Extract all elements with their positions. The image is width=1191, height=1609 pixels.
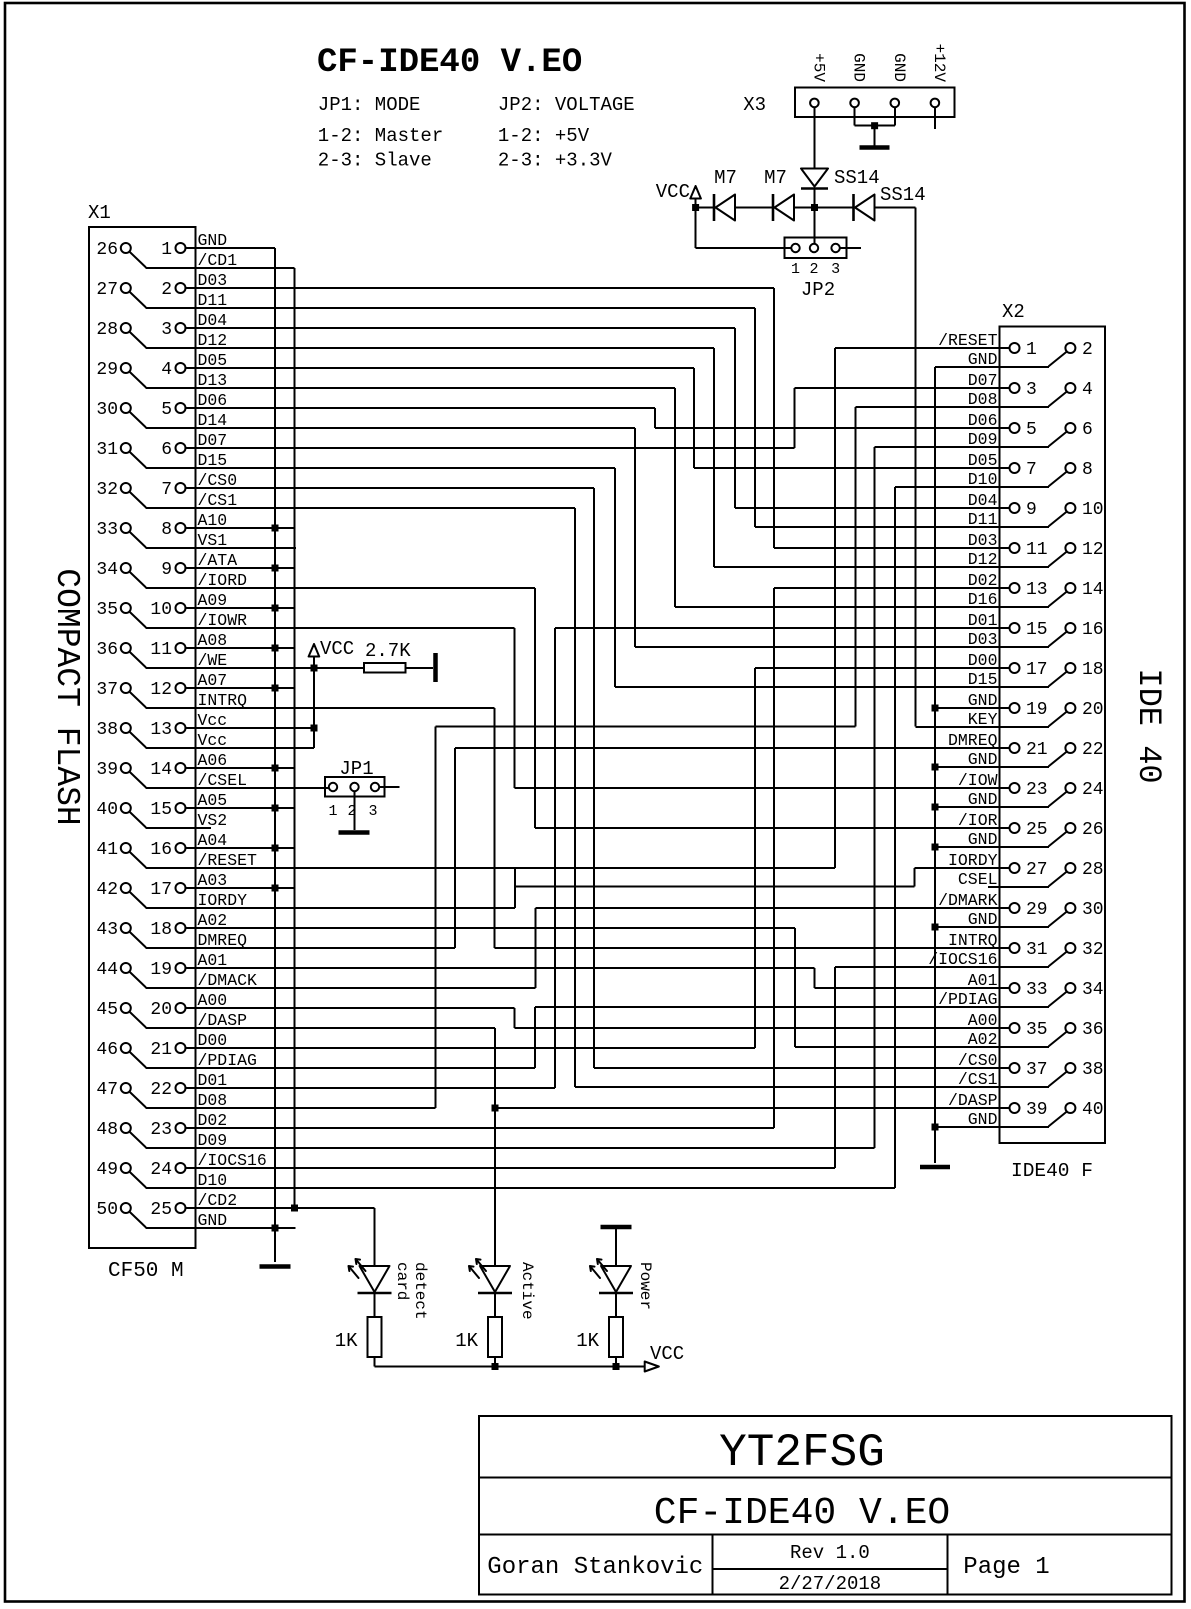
svg-text:IORDY: IORDY (198, 891, 248, 910)
svg-text:15: 15 (1026, 620, 1048, 640)
svg-text:3: 3 (1026, 380, 1037, 400)
svg-text:VCC: VCC (656, 181, 690, 203)
svg-text:18: 18 (150, 920, 172, 940)
svg-text:7: 7 (161, 480, 172, 500)
svg-text:18: 18 (1082, 660, 1104, 680)
svg-text:17: 17 (1026, 660, 1048, 680)
svg-text:3: 3 (161, 320, 172, 340)
svg-text:2-3: +3.3V: 2-3: +3.3V (498, 150, 613, 172)
svg-text:30: 30 (96, 400, 118, 420)
svg-text:25: 25 (1026, 820, 1048, 840)
svg-text:2: 2 (347, 803, 356, 820)
svg-text:31: 31 (1026, 940, 1048, 960)
svg-text:/CS1: /CS1 (958, 1070, 998, 1089)
svg-text:D05: D05 (198, 351, 228, 370)
svg-text:19: 19 (1026, 700, 1048, 720)
svg-text:29: 29 (96, 360, 118, 380)
svg-text:GND: GND (198, 231, 228, 250)
svg-text:/CSEL: /CSEL (198, 771, 248, 790)
svg-text:SS14: SS14 (880, 184, 926, 206)
svg-text:23: 23 (1026, 780, 1048, 800)
svg-text:VS1: VS1 (198, 531, 228, 550)
svg-text:KEY: KEY (968, 710, 998, 729)
svg-text:VS2: VS2 (198, 811, 228, 830)
svg-text:/RESET: /RESET (198, 851, 258, 870)
svg-text:GND: GND (968, 830, 998, 849)
svg-text:JP1: MODE: JP1: MODE (318, 94, 421, 116)
svg-text:D07: D07 (968, 371, 998, 390)
svg-text:D03: D03 (968, 630, 998, 649)
svg-text:40: 40 (96, 800, 118, 820)
svg-text:4: 4 (1082, 380, 1093, 400)
svg-text:D00: D00 (198, 1031, 228, 1050)
svg-text:GND: GND (968, 750, 998, 769)
svg-text:34: 34 (96, 560, 118, 580)
svg-text:37: 37 (1026, 1060, 1048, 1080)
svg-text:9: 9 (1026, 500, 1037, 520)
svg-text:35: 35 (96, 600, 118, 620)
svg-text:GND: GND (968, 790, 998, 809)
svg-text:1-2: Master: 1-2: Master (318, 125, 443, 147)
svg-text:5: 5 (1026, 420, 1037, 440)
svg-text:JP2: JP2 (801, 279, 835, 301)
svg-text:/WE: /WE (198, 651, 228, 670)
svg-text:/IOW: /IOW (958, 771, 998, 790)
svg-text:A02: A02 (968, 1030, 998, 1049)
svg-text:9: 9 (161, 560, 172, 580)
svg-text:1K: 1K (576, 1330, 599, 1352)
svg-text:D10: D10 (198, 1171, 228, 1190)
svg-text:7: 7 (1026, 460, 1037, 480)
svg-text:D02: D02 (198, 1111, 228, 1130)
svg-text:31: 31 (96, 440, 118, 460)
svg-text:D10: D10 (968, 470, 998, 489)
svg-text:A04: A04 (198, 831, 228, 850)
svg-text:15: 15 (150, 800, 172, 820)
svg-text:14: 14 (1082, 580, 1104, 600)
svg-text:10: 10 (1082, 500, 1104, 520)
svg-text:29: 29 (1026, 900, 1048, 920)
svg-text:45: 45 (96, 1000, 118, 1020)
svg-text:6: 6 (1082, 420, 1093, 440)
svg-text:Rev 1.0: Rev 1.0 (790, 1542, 870, 1564)
svg-text:35: 35 (1026, 1020, 1048, 1040)
svg-text:6: 6 (161, 440, 172, 460)
svg-text:M7: M7 (714, 167, 737, 189)
svg-text:46: 46 (96, 1040, 118, 1060)
svg-text:/IORD: /IORD (198, 571, 248, 590)
svg-text:D08: D08 (968, 390, 998, 409)
svg-text:49: 49 (96, 1160, 118, 1180)
svg-text:1-2: +5V: 1-2: +5V (498, 125, 590, 147)
svg-text:VCC: VCC (650, 1343, 684, 1365)
svg-text:D09: D09 (198, 1131, 228, 1150)
svg-text:D11: D11 (968, 510, 998, 529)
svg-text:2: 2 (1082, 340, 1093, 360)
svg-text:/DASP: /DASP (198, 1011, 248, 1030)
svg-text:GND: GND (968, 691, 998, 710)
svg-text:/RESET: /RESET (938, 331, 998, 350)
svg-text:IDE40 F: IDE40 F (1011, 1160, 1093, 1182)
svg-text:22: 22 (1082, 740, 1104, 760)
svg-text:32: 32 (1082, 940, 1104, 960)
svg-text:16: 16 (150, 840, 172, 860)
svg-text:+12V: +12V (930, 44, 948, 83)
svg-text:D04: D04 (968, 491, 998, 510)
svg-text:12: 12 (150, 680, 172, 700)
svg-text:2: 2 (809, 261, 818, 278)
svg-text:38: 38 (96, 720, 118, 740)
svg-text:A09: A09 (198, 591, 228, 610)
svg-text:D15: D15 (968, 670, 998, 689)
svg-text:1: 1 (161, 240, 172, 260)
svg-text:DMREQ: DMREQ (948, 731, 998, 750)
svg-text:1: 1 (1026, 340, 1037, 360)
svg-text:24: 24 (150, 1160, 172, 1180)
svg-text:1: 1 (328, 803, 337, 820)
svg-text:23: 23 (150, 1120, 172, 1140)
svg-text:30: 30 (1082, 900, 1104, 920)
svg-text:D13: D13 (198, 371, 228, 390)
svg-text:1: 1 (791, 261, 800, 278)
svg-text:A10: A10 (198, 511, 228, 530)
svg-text:A02: A02 (198, 911, 228, 930)
svg-text:39: 39 (1026, 1100, 1048, 1120)
svg-text:27: 27 (1026, 860, 1048, 880)
svg-text:D07: D07 (198, 431, 228, 450)
svg-text:47: 47 (96, 1080, 118, 1100)
svg-text:D11: D11 (198, 291, 228, 310)
svg-text:/CD2: /CD2 (198, 1191, 238, 1210)
svg-text:D06: D06 (198, 391, 228, 410)
svg-text:/CS1: /CS1 (198, 491, 238, 510)
svg-text:/IOWR: /IOWR (198, 611, 248, 630)
svg-text:YT2FSG: YT2FSG (719, 1427, 885, 1479)
svg-text:26: 26 (1082, 820, 1104, 840)
svg-text:8: 8 (161, 520, 172, 540)
svg-text:Vcc: Vcc (198, 711, 228, 730)
svg-text:D12: D12 (198, 331, 228, 350)
svg-text:D04: D04 (198, 311, 228, 330)
svg-text:GND: GND (968, 350, 998, 369)
svg-text:CF50 M: CF50 M (108, 1260, 184, 1283)
svg-text:D09: D09 (968, 430, 998, 449)
svg-text:13: 13 (1026, 580, 1048, 600)
svg-text:M7: M7 (764, 167, 787, 189)
svg-text:/IOCS16: /IOCS16 (928, 950, 997, 969)
svg-text:2.7K: 2.7K (365, 640, 411, 662)
svg-text:COMPACT FLASH: COMPACT FLASH (48, 568, 85, 825)
svg-text:X1: X1 (88, 202, 111, 224)
svg-text:A06: A06 (198, 751, 228, 770)
svg-text:Power: Power (636, 1262, 654, 1310)
svg-text:JP2: VOLTAGE: JP2: VOLTAGE (498, 94, 635, 116)
svg-text:11: 11 (1026, 540, 1048, 560)
svg-text:36: 36 (1082, 1020, 1104, 1040)
svg-text:A08: A08 (198, 631, 228, 650)
svg-text:/CS0: /CS0 (198, 471, 238, 490)
svg-text:2-3: Slave: 2-3: Slave (318, 150, 432, 172)
svg-text:+5V: +5V (809, 53, 827, 82)
svg-text:20: 20 (150, 1000, 172, 1020)
svg-text:21: 21 (150, 1040, 172, 1060)
svg-text:GND: GND (968, 910, 998, 929)
svg-text:Page 1: Page 1 (963, 1554, 1049, 1581)
svg-text:17: 17 (150, 880, 172, 900)
svg-text:48: 48 (96, 1120, 118, 1140)
svg-text:/CD1: /CD1 (198, 251, 238, 270)
svg-text:3: 3 (368, 803, 377, 820)
svg-text:19: 19 (150, 960, 172, 980)
svg-text:D12: D12 (968, 550, 998, 569)
svg-text:CF-IDE40 V.EO: CF-IDE40 V.EO (317, 44, 582, 82)
svg-text:/DASP: /DASP (948, 1091, 998, 1110)
svg-text:/DMACK: /DMACK (198, 971, 258, 990)
svg-text:40: 40 (1082, 1100, 1104, 1120)
svg-text:21: 21 (1026, 740, 1048, 760)
svg-text:27: 27 (96, 280, 118, 300)
svg-text:SS14: SS14 (834, 167, 880, 189)
svg-text:IORDY: IORDY (948, 851, 998, 870)
svg-text:X2: X2 (1002, 301, 1025, 323)
svg-text:card: card (393, 1262, 411, 1300)
svg-text:D03: D03 (968, 531, 998, 550)
svg-text:/PDIAG: /PDIAG (938, 990, 997, 1009)
svg-text:VCC: VCC (320, 638, 354, 660)
svg-text:GND: GND (198, 1211, 228, 1230)
svg-text:38: 38 (1082, 1060, 1104, 1080)
svg-text:41: 41 (96, 840, 118, 860)
svg-text:detect: detect (411, 1262, 429, 1320)
svg-text:CF-IDE40 V.EO: CF-IDE40 V.EO (654, 1492, 950, 1535)
svg-text:10: 10 (150, 600, 172, 620)
svg-text:D16: D16 (968, 590, 998, 609)
svg-text:/CS0: /CS0 (958, 1051, 998, 1070)
svg-text:12: 12 (1082, 540, 1104, 560)
svg-text:32: 32 (96, 480, 118, 500)
svg-text:5: 5 (161, 400, 172, 420)
svg-text:1K: 1K (335, 1330, 358, 1352)
svg-text:D02: D02 (968, 571, 998, 590)
svg-text:/PDIAG: /PDIAG (198, 1051, 257, 1070)
svg-text:/ATA: /ATA (198, 551, 238, 570)
svg-text:D01: D01 (968, 611, 998, 630)
svg-text:A01: A01 (198, 951, 228, 970)
svg-text:37: 37 (96, 680, 118, 700)
svg-text:INTRQ: INTRQ (948, 931, 998, 950)
svg-text:GND: GND (850, 53, 868, 82)
svg-text:8: 8 (1082, 460, 1093, 480)
svg-text:D05: D05 (968, 451, 998, 470)
svg-text:42: 42 (96, 880, 118, 900)
svg-text:28: 28 (1082, 860, 1104, 880)
svg-text:39: 39 (96, 760, 118, 780)
svg-text:26: 26 (96, 240, 118, 260)
svg-text:D15: D15 (198, 451, 228, 470)
svg-text:JP1: JP1 (339, 758, 373, 780)
svg-text:20: 20 (1082, 700, 1104, 720)
svg-text:/DMARK: /DMARK (938, 891, 998, 910)
svg-text:GND: GND (890, 53, 908, 82)
svg-text:/IOCS16: /IOCS16 (198, 1151, 267, 1170)
svg-text:34: 34 (1082, 980, 1104, 1000)
svg-text:D08: D08 (198, 1091, 228, 1110)
svg-text:16: 16 (1082, 620, 1104, 640)
svg-text:A07: A07 (198, 671, 228, 690)
svg-text:A00: A00 (968, 1011, 998, 1030)
svg-text:GND: GND (968, 1110, 998, 1129)
svg-text:A00: A00 (198, 991, 228, 1010)
svg-text:44: 44 (96, 960, 118, 980)
svg-text:13: 13 (150, 720, 172, 740)
svg-text:25: 25 (150, 1200, 172, 1220)
svg-text:28: 28 (96, 320, 118, 340)
svg-text:D14: D14 (198, 411, 228, 430)
svg-text:33: 33 (96, 520, 118, 540)
svg-text:11: 11 (150, 640, 172, 660)
svg-text:A05: A05 (198, 791, 228, 810)
svg-text:D03: D03 (198, 271, 228, 290)
svg-text:22: 22 (150, 1080, 172, 1100)
svg-text:2/27/2018: 2/27/2018 (779, 1573, 882, 1595)
svg-text:36: 36 (96, 640, 118, 660)
svg-text:D00: D00 (968, 651, 998, 670)
svg-text:A01: A01 (968, 971, 998, 990)
svg-text:43: 43 (96, 920, 118, 940)
svg-text:INTRQ: INTRQ (198, 691, 248, 710)
svg-text:D01: D01 (198, 1071, 228, 1090)
svg-text:Goran Stankovic: Goran Stankovic (487, 1554, 703, 1581)
svg-text:2: 2 (161, 280, 172, 300)
svg-text:14: 14 (150, 760, 172, 780)
svg-text:24: 24 (1082, 780, 1104, 800)
svg-text:Vcc: Vcc (198, 731, 228, 750)
svg-text:3: 3 (831, 261, 840, 278)
svg-text:D06: D06 (968, 411, 998, 430)
svg-text:1K: 1K (455, 1330, 478, 1352)
svg-text:50: 50 (96, 1200, 118, 1220)
svg-text:DMREQ: DMREQ (198, 931, 248, 950)
svg-text:CSEL: CSEL (958, 870, 998, 889)
svg-text:IDE 40: IDE 40 (1130, 668, 1167, 783)
svg-text:X3: X3 (743, 94, 766, 116)
svg-text:33: 33 (1026, 980, 1048, 1000)
svg-text:A03: A03 (198, 871, 228, 890)
svg-text:/IOR: /IOR (958, 811, 998, 830)
svg-text:4: 4 (161, 360, 172, 380)
svg-text:Active: Active (518, 1262, 536, 1320)
